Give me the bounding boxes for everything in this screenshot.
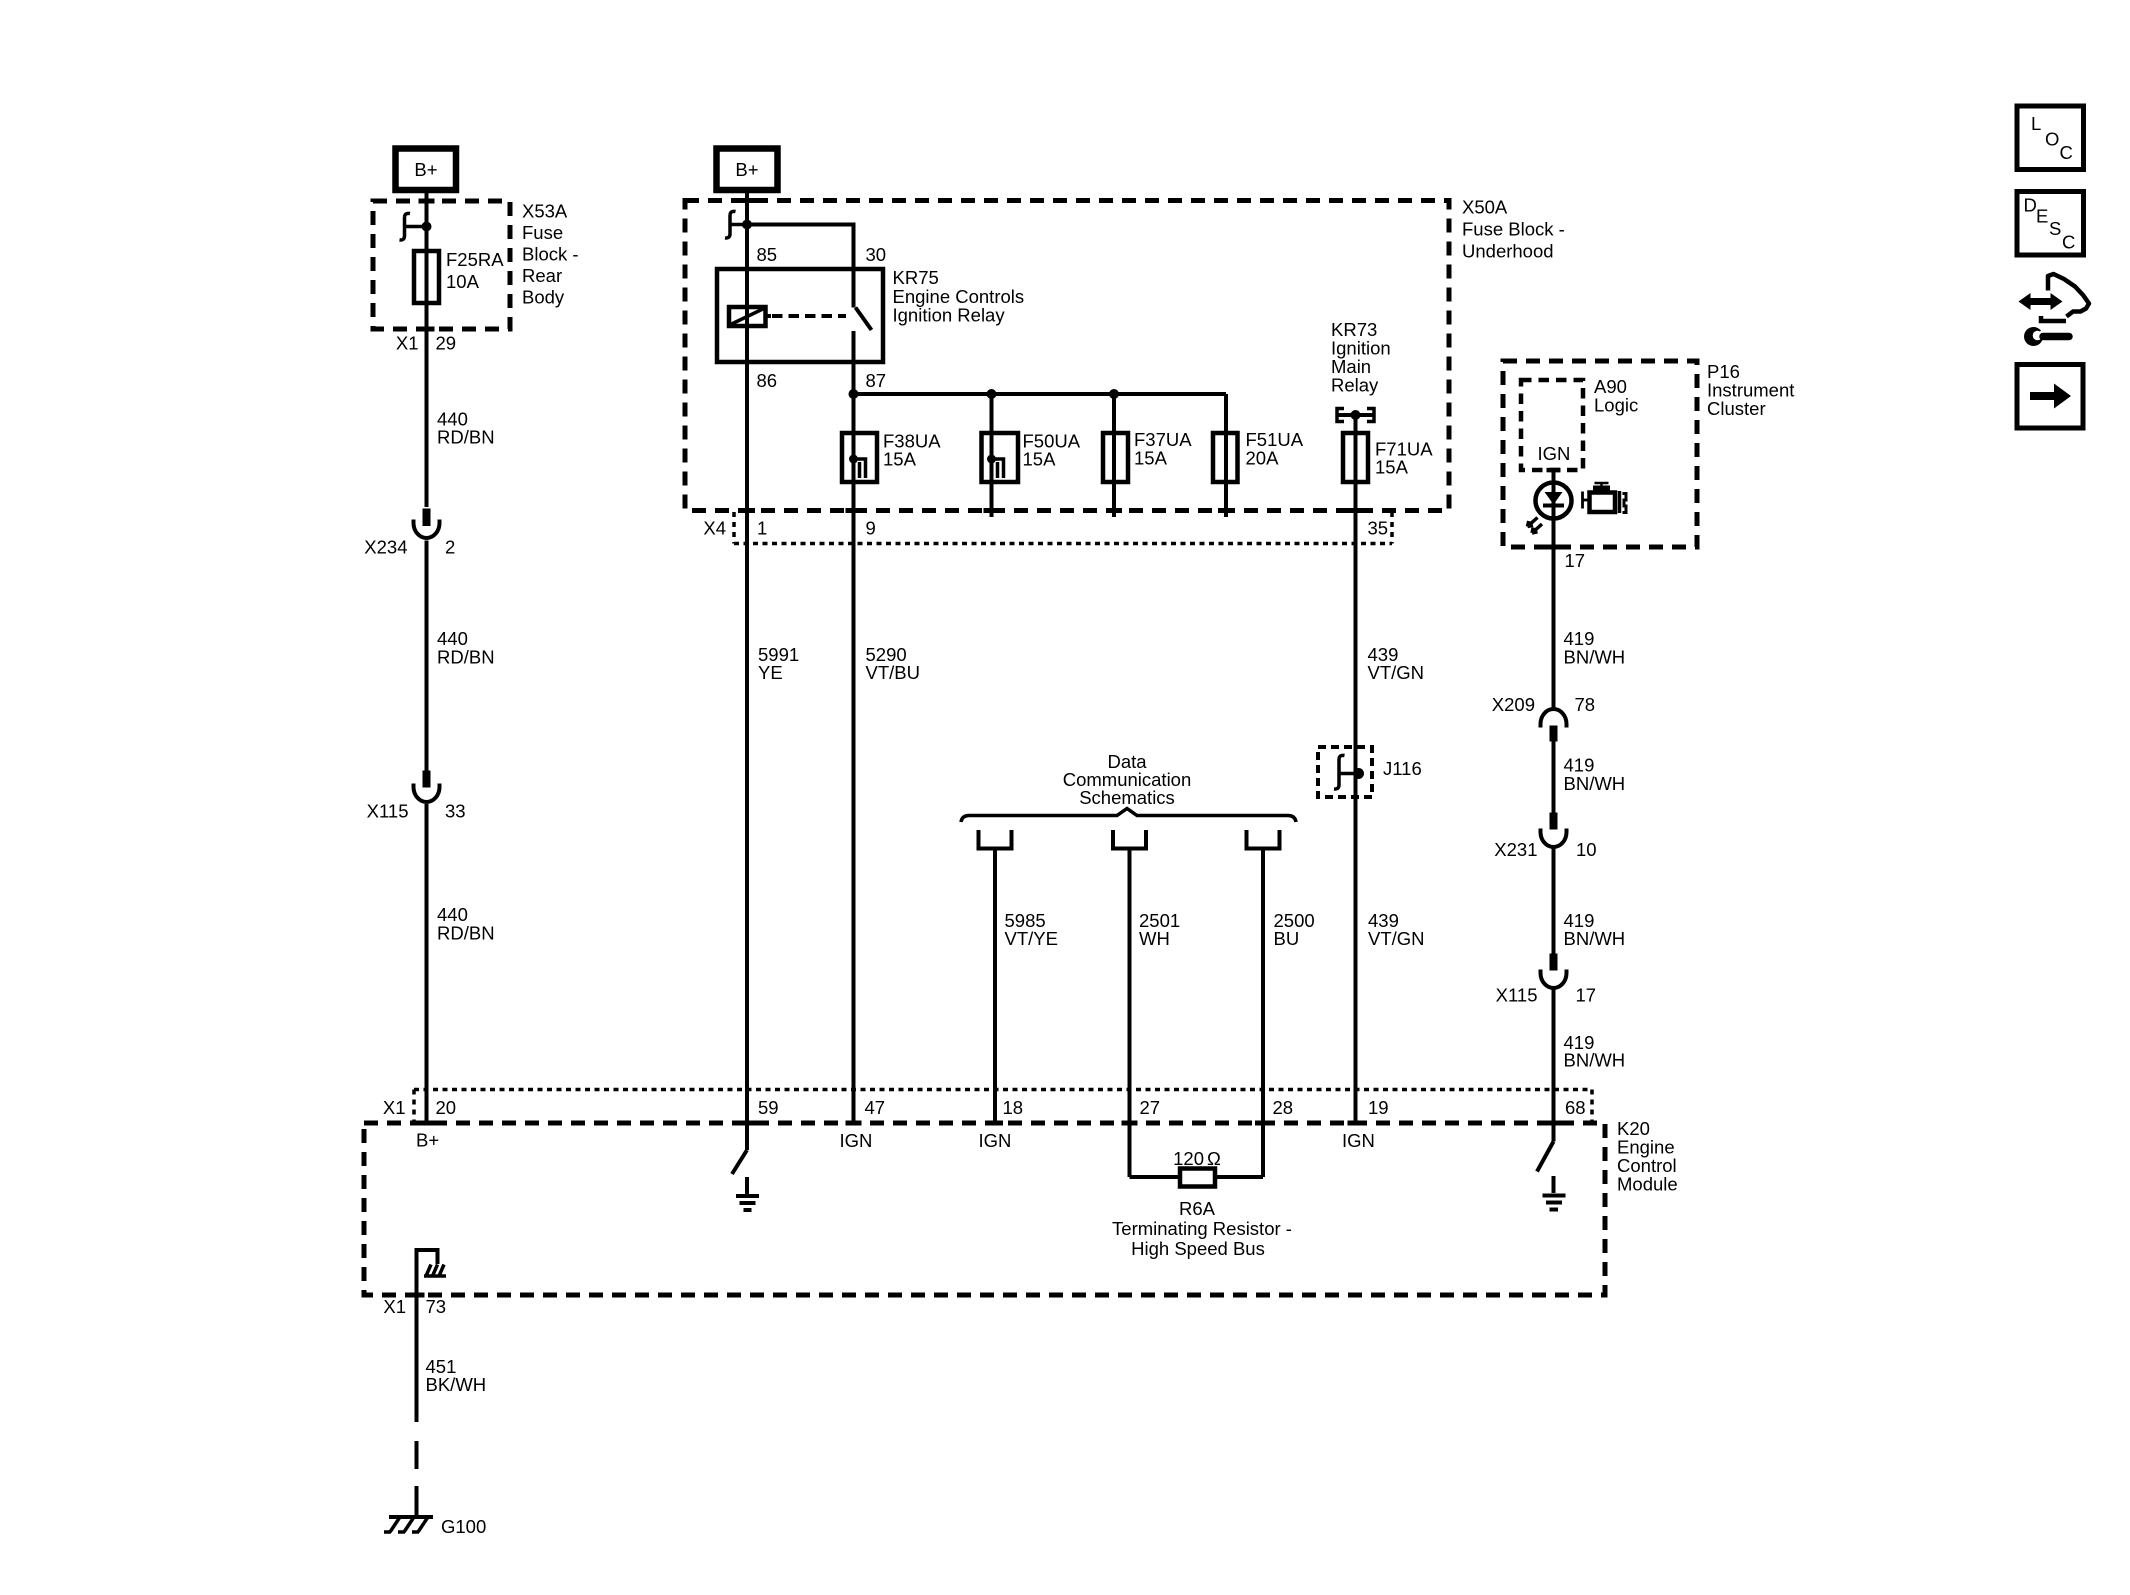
svg-text:WH: WH bbox=[1139, 928, 1170, 949]
battery feed B+ (right) bbox=[717, 149, 778, 191]
LED indicator lamp bbox=[1536, 483, 1572, 519]
svg-text:BN/WH: BN/WH bbox=[1564, 1050, 1626, 1071]
battery feed B+ (left) bbox=[396, 149, 457, 191]
DESC reference box bbox=[2017, 192, 2084, 256]
svg-text:15A: 15A bbox=[1134, 448, 1168, 469]
off-page terminal (5985) bbox=[979, 830, 1012, 849]
svg-text:Schematics: Schematics bbox=[1079, 787, 1175, 808]
svg-text:D: D bbox=[2024, 195, 2037, 216]
relay KR75 Engine Controls Ignition Relay bbox=[717, 267, 1024, 362]
svg-text:59: 59 bbox=[758, 1097, 779, 1118]
svg-text:F25RA: F25RA bbox=[446, 249, 504, 270]
relay KR75 switch blade bbox=[856, 308, 872, 331]
svg-text:IGN: IGN bbox=[840, 1130, 873, 1151]
X50A label bbox=[1462, 197, 1565, 262]
junction node in X53A bbox=[422, 222, 432, 232]
K20 connector row X1 bbox=[383, 1090, 1592, 1122]
svg-text:29: 29 bbox=[436, 333, 457, 354]
svg-text:Rear: Rear bbox=[522, 265, 562, 286]
K20 Engine Control Module dashed box bbox=[364, 1121, 1605, 1298]
resistor R6A Terminating Resistor - High Speed Bus bbox=[1112, 1148, 1292, 1259]
svg-text:KR75: KR75 bbox=[893, 267, 939, 288]
svg-text:35: 35 bbox=[1368, 518, 1389, 539]
svg-text:86: 86 bbox=[757, 370, 778, 391]
svg-text:9: 9 bbox=[866, 518, 876, 539]
svg-text:IGN: IGN bbox=[979, 1130, 1012, 1151]
svg-text:Cluster: Cluster bbox=[1707, 398, 1766, 419]
svg-text:R6A: R6A bbox=[1179, 1198, 1216, 1219]
svg-text:33: 33 bbox=[445, 801, 466, 822]
relay KR73 Ignition Main Relay label bbox=[1331, 319, 1391, 396]
fuse F38UA 15A bbox=[842, 431, 941, 483]
svg-text:85: 85 bbox=[757, 244, 778, 265]
svg-text:27: 27 bbox=[1140, 1097, 1161, 1118]
wire 439 VT/GN label (upper) bbox=[1368, 644, 1425, 683]
svg-text:X209: X209 bbox=[1492, 694, 1535, 715]
wire 419 BN/WH segment 2 bbox=[1552, 742, 1556, 813]
svg-text:RD/BN: RD/BN bbox=[437, 647, 495, 668]
compare/repair icon bbox=[2019, 274, 2090, 346]
svg-text:X53A: X53A bbox=[522, 201, 568, 222]
wire: F37UA stub bbox=[1112, 394, 1116, 517]
connector J116 bbox=[1318, 747, 1422, 797]
svg-text:78: 78 bbox=[1575, 694, 1596, 715]
off-page terminal (2501) bbox=[1113, 830, 1146, 849]
wire 440 RD/BN (segment 2) bbox=[425, 541, 429, 771]
connector X4 row bbox=[703, 512, 1392, 544]
P16 label bbox=[1707, 361, 1794, 419]
off-page terminal (2500) bbox=[1247, 830, 1280, 849]
connector X1 pin 29 bbox=[396, 333, 456, 354]
clip symbol in X50A bbox=[725, 211, 747, 238]
switch inside K20 under pin 68 bbox=[1537, 1142, 1554, 1172]
svg-text:Block -: Block - bbox=[522, 244, 579, 265]
wire 440 RD/BN (segment 3) bbox=[425, 804, 429, 1123]
wire 439 VT/GN label (lower) bbox=[1368, 910, 1425, 949]
svg-text:VT/YE: VT/YE bbox=[1005, 928, 1058, 949]
wire: relay pin 87 down to K20 pin 47 bbox=[852, 331, 856, 1123]
wire 451 BK/WH dashed continuation bbox=[415, 1441, 419, 1515]
svg-text:E: E bbox=[2036, 206, 2048, 227]
svg-text:Fuse Block -: Fuse Block - bbox=[1462, 219, 1565, 240]
svg-text:10A: 10A bbox=[446, 271, 480, 292]
fuse block X53A dashed box bbox=[373, 199, 510, 332]
svg-text:O: O bbox=[2045, 129, 2059, 150]
fuse block X50A dashed box bbox=[685, 198, 1449, 513]
relay KR75 pin labels bbox=[757, 244, 887, 391]
brace bbox=[961, 809, 1296, 823]
wire 419 BN/WH segment 3 bbox=[1552, 847, 1556, 954]
wire 2501 WH to K20 pin 27 bbox=[1128, 849, 1132, 1178]
ground inside K20 under pin 59 bbox=[736, 1177, 759, 1210]
ground G100 bbox=[384, 1516, 486, 1537]
svg-text:Ignition Relay: Ignition Relay bbox=[893, 305, 1006, 326]
clip symbol in X53A bbox=[400, 213, 427, 240]
inline connector X115 pin 33 bbox=[367, 771, 466, 822]
svg-text:X50A: X50A bbox=[1462, 197, 1508, 218]
svg-text:X1: X1 bbox=[383, 1097, 406, 1118]
Data Communication Schematics note bbox=[1063, 751, 1192, 808]
X53A label bbox=[522, 201, 579, 308]
svg-text:X115: X115 bbox=[1496, 985, 1538, 1006]
svg-text:87: 87 bbox=[866, 370, 887, 391]
K20 label bbox=[1617, 1118, 1678, 1195]
wire 451 BK/WH bbox=[415, 1295, 419, 1422]
fuse F71UA 15A bbox=[1343, 433, 1433, 482]
svg-text:BN/WH: BN/WH bbox=[1564, 773, 1626, 794]
wire: fuse feed bus from 87 bbox=[849, 389, 1227, 399]
fuse F51UA 20A bbox=[1213, 429, 1304, 482]
svg-text:G100: G100 bbox=[441, 1516, 486, 1537]
inline connector X209 pin 78 bbox=[1492, 694, 1595, 742]
svg-text:19: 19 bbox=[1368, 1097, 1389, 1118]
K20 internal pin function labels bbox=[416, 1130, 1375, 1152]
logic module A90 dashed box bbox=[1521, 376, 1638, 472]
inline connector X115 pin 17 bbox=[1496, 954, 1596, 1006]
svg-text:High Speed Bus: High Speed Bus bbox=[1131, 1238, 1265, 1259]
svg-text:15A: 15A bbox=[883, 449, 917, 470]
wire: F50UA stub bbox=[990, 394, 994, 517]
svg-text:IGN: IGN bbox=[1538, 443, 1571, 464]
svg-text:Relay: Relay bbox=[1331, 375, 1379, 396]
wire: B+ down through relay coil to K20 pin 59 bbox=[745, 190, 749, 1150]
wire: B+ to fuse F25RA to X1-29 to X234 bbox=[425, 190, 429, 507]
svg-text:VT/GN: VT/GN bbox=[1368, 928, 1425, 949]
inline connector X231 pin 10 bbox=[1494, 813, 1596, 861]
LOC reference box bbox=[2017, 106, 2084, 170]
svg-text:VT/GN: VT/GN bbox=[1368, 662, 1425, 683]
svg-text:15A: 15A bbox=[1375, 457, 1409, 478]
svg-text:YE: YE bbox=[758, 662, 783, 683]
relay KR75 actuation dashed link bbox=[772, 314, 846, 318]
inline connector X234 pin 2 bbox=[364, 509, 455, 558]
svg-text:Terminating Resistor -: Terminating Resistor - bbox=[1112, 1218, 1292, 1239]
LED light arrows bbox=[1528, 518, 1543, 534]
junction node at B+ feed bbox=[742, 220, 752, 230]
svg-text:X4: X4 bbox=[703, 518, 726, 539]
svg-text:RD/BN: RD/BN bbox=[437, 923, 495, 944]
svg-text:BU: BU bbox=[1274, 928, 1300, 949]
ground strap inside K20 at pin 73 bbox=[417, 1250, 447, 1295]
svg-text:IGN: IGN bbox=[1342, 1130, 1375, 1151]
fuse F25RA 10A bbox=[414, 249, 504, 303]
wire: jumper to relay pin 30 bbox=[747, 225, 854, 308]
svg-text:RD/BN: RD/BN bbox=[437, 427, 495, 448]
svg-text:20A: 20A bbox=[1246, 448, 1280, 469]
svg-text:B+: B+ bbox=[416, 1130, 439, 1151]
svg-text:Logic: Logic bbox=[1594, 395, 1638, 416]
svg-text:BN/WH: BN/WH bbox=[1564, 647, 1626, 668]
wire: F51UA stub bbox=[1224, 394, 1228, 517]
svg-text:15A: 15A bbox=[1023, 449, 1057, 470]
svg-text:X1: X1 bbox=[396, 333, 419, 354]
svg-text:120: 120 bbox=[1173, 1148, 1204, 1169]
next-page arrow box bbox=[2017, 365, 2083, 429]
svg-text:1: 1 bbox=[757, 518, 767, 539]
svg-text:68: 68 bbox=[1565, 1097, 1586, 1118]
wire 5985 VT/YE to K20 pin 18 bbox=[993, 849, 997, 1124]
svg-text:18: 18 bbox=[1003, 1097, 1024, 1118]
svg-text:Module: Module bbox=[1617, 1174, 1678, 1195]
svg-text:Ω: Ω bbox=[1207, 1148, 1221, 1169]
wire 440 RD/BN (segment 1) bbox=[437, 409, 495, 448]
svg-text:B+: B+ bbox=[735, 159, 758, 180]
wire 2500 BU to K20 pin 28 bbox=[1261, 849, 1265, 1178]
wire 5290 VT/BU label bbox=[866, 644, 920, 683]
svg-text:17: 17 bbox=[1576, 985, 1597, 1006]
fuse F50UA 15A bbox=[982, 431, 1081, 483]
svg-text:20: 20 bbox=[436, 1097, 457, 1118]
fuse F37UA 15A bbox=[1103, 429, 1192, 482]
instrument cluster P16 dashed box bbox=[1503, 361, 1697, 550]
svg-text:2: 2 bbox=[445, 537, 455, 558]
relay KR73 output terminal bbox=[1337, 409, 1374, 422]
svg-text:BN/WH: BN/WH bbox=[1564, 928, 1626, 949]
svg-text:L: L bbox=[2031, 113, 2041, 134]
svg-text:B+: B+ bbox=[414, 159, 437, 180]
wire 419 BN/WH segment 4 to K20 pin 68 bbox=[1552, 988, 1556, 1142]
wire 419 BN/WH label 1 bbox=[1564, 628, 1626, 668]
relay KR75 coil bbox=[729, 307, 771, 326]
svg-text:47: 47 bbox=[865, 1097, 886, 1118]
wire 5991 YE label bbox=[758, 644, 799, 683]
svg-text:30: 30 bbox=[866, 244, 887, 265]
svg-text:17: 17 bbox=[1565, 550, 1586, 571]
svg-text:X115: X115 bbox=[367, 801, 409, 822]
svg-text:73: 73 bbox=[426, 1296, 447, 1317]
svg-text:X231: X231 bbox=[1494, 839, 1537, 860]
svg-text:J116: J116 bbox=[1383, 758, 1422, 779]
wire: IGN output through indicator bbox=[1552, 470, 1556, 710]
svg-text:Body: Body bbox=[522, 287, 565, 308]
svg-text:X234: X234 bbox=[364, 537, 407, 558]
svg-text:C: C bbox=[2062, 232, 2075, 253]
svg-text:Underhood: Underhood bbox=[1462, 241, 1554, 262]
svg-text:S: S bbox=[2049, 218, 2061, 239]
wire: KR73 through F71UA to K20 pin 19 bbox=[1354, 415, 1358, 1123]
switch inside K20 under pin 59 bbox=[732, 1150, 747, 1174]
svg-text:10: 10 bbox=[1576, 839, 1597, 860]
svg-text:28: 28 bbox=[1273, 1097, 1294, 1118]
svg-text:C: C bbox=[2060, 142, 2073, 163]
svg-text:Fuse: Fuse bbox=[522, 222, 563, 243]
svg-text:VT/BU: VT/BU bbox=[866, 662, 920, 683]
check engine icon bbox=[1583, 483, 1627, 513]
ground inside K20 under pin 68 bbox=[1543, 1176, 1566, 1210]
svg-text:X1: X1 bbox=[383, 1296, 406, 1317]
svg-text:BK/WH: BK/WH bbox=[426, 1374, 487, 1395]
connector X1 pin 73 bbox=[383, 1296, 446, 1317]
